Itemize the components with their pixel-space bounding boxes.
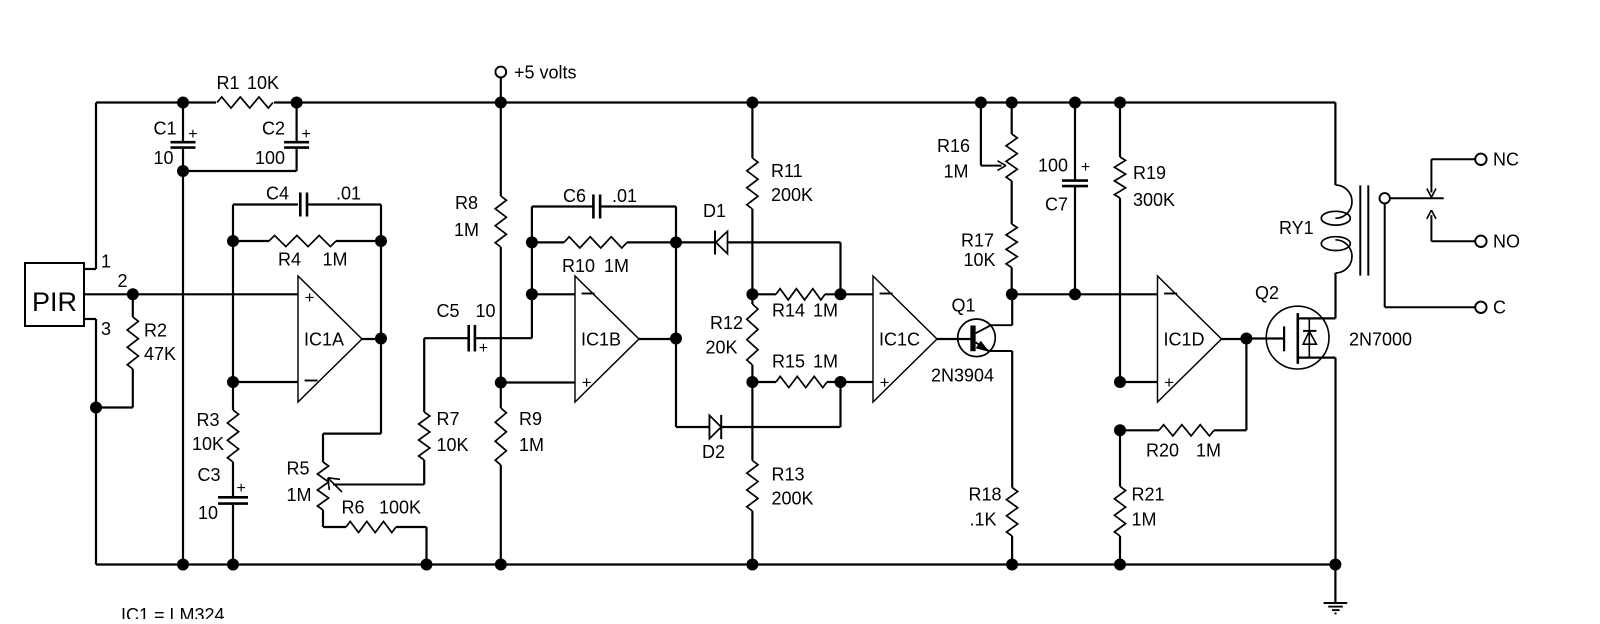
- svg-text:3: 3: [101, 319, 111, 339]
- svg-text:C2: C2: [262, 119, 285, 139]
- svg-text:10: 10: [476, 301, 496, 321]
- svg-text:IC1A: IC1A: [304, 330, 344, 350]
- svg-text:1M: 1M: [813, 301, 838, 321]
- resistor R10 1M: [532, 241, 564, 243]
- svg-text:1M: 1M: [604, 256, 629, 276]
- capacitor C7 100: [1069, 97, 1081, 109]
- NC contact: [1431, 158, 1475, 160]
- pin 1: [84, 268, 96, 270]
- svg-text:R5: R5: [287, 459, 310, 479]
- svg-text:R20: R20: [1146, 441, 1179, 461]
- wire: IC1B right vertical to D2: [675, 207, 677, 428]
- PIR sensor module: [25, 263, 84, 326]
- svg-text:R21: R21: [1132, 485, 1165, 505]
- relay arm: [1390, 197, 1444, 199]
- svg-text:R13: R13: [772, 465, 805, 485]
- svg-text:1M: 1M: [1132, 510, 1157, 530]
- C common contact: [1384, 204, 1386, 308]
- potentiometer R16 1M: [1006, 97, 1018, 109]
- pin 2: [84, 293, 298, 295]
- svg-text:C3: C3: [198, 465, 221, 485]
- svg-text:20K: 20K: [706, 338, 738, 358]
- svg-text:R6: R6: [342, 498, 365, 518]
- svg-text:R9: R9: [519, 409, 542, 429]
- svg-text:R4: R4: [278, 250, 301, 270]
- resistor R6 100K: [323, 526, 346, 528]
- resistor R20 1M feedback: [1245, 339, 1247, 430]
- resistor R9 1M: [500, 383, 502, 409]
- wire: IC1A - input: [227, 376, 239, 388]
- svg-text:+5 volts: +5 volts: [514, 63, 577, 83]
- svg-text:+: +: [302, 126, 311, 143]
- svg-text:+: +: [1081, 159, 1090, 176]
- svg-text:R1: R1: [217, 73, 240, 93]
- relay RY1 coil: [1334, 103, 1336, 186]
- resistor R7 10K: [423, 338, 425, 412]
- svg-text:R16: R16: [937, 136, 970, 156]
- svg-text:C1: C1: [154, 119, 177, 139]
- wire: Q1 collector row to IC1D - input: [1012, 293, 1158, 295]
- resistor R11 200K column: [746, 97, 758, 109]
- svg-text:+: +: [305, 288, 315, 307]
- svg-text:200K: 200K: [772, 489, 814, 509]
- MOSFET Q2 2N7000: [1246, 337, 1284, 339]
- wire: Q2 drain to relay coil: [1334, 275, 1336, 318]
- svg-text:10K: 10K: [964, 250, 996, 270]
- wire: feedback right vertical: [380, 205, 382, 434]
- wire: Q1 emitter to R18: [1011, 351, 1013, 488]
- svg-text:C4: C4: [266, 184, 289, 204]
- potentiometer R5 1M: [323, 433, 381, 435]
- resistor R8 1M column: [495, 97, 507, 109]
- svg-text:R11: R11: [771, 161, 803, 181]
- svg-text:.01: .01: [612, 186, 637, 206]
- svg-text:C: C: [1493, 298, 1506, 318]
- wire: IC1D output node: [1222, 338, 1247, 340]
- R16 wiper arrow: [975, 97, 987, 109]
- capacitor C1 10: [177, 97, 189, 109]
- svg-text:+: +: [1164, 373, 1174, 392]
- svg-text:R3: R3: [197, 410, 220, 430]
- capacitor C3 10: [218, 496, 248, 499]
- svg-text:R2: R2: [144, 321, 167, 341]
- relay core: [1359, 185, 1361, 275]
- svg-text:100: 100: [255, 148, 285, 168]
- svg-text:R8: R8: [455, 193, 478, 213]
- svg-text:R18: R18: [969, 485, 1002, 505]
- svg-text:10K: 10K: [247, 73, 279, 93]
- svg-text:2: 2: [118, 271, 128, 291]
- svg-text:300K: 300K: [1133, 190, 1175, 210]
- svg-text:Q1: Q1: [952, 296, 976, 316]
- resistor R15 1M: [835, 376, 847, 388]
- svg-text:2N3904: 2N3904: [931, 366, 994, 386]
- svg-text:.01: .01: [336, 184, 361, 204]
- wire: ground bottom rail: [96, 563, 1335, 565]
- svg-text:D2: D2: [702, 442, 725, 462]
- op-amp IC1C: [873, 276, 937, 402]
- resistor R12 20K: [746, 288, 758, 300]
- capacitor C4 .01: [233, 203, 300, 205]
- svg-text:D1: D1: [703, 201, 726, 221]
- svg-text:IC1C: IC1C: [879, 330, 920, 350]
- svg-text:10K: 10K: [437, 435, 469, 455]
- svg-text:+: +: [582, 373, 592, 392]
- svg-text:100K: 100K: [379, 498, 421, 518]
- op-amp IC1D: [1158, 276, 1222, 402]
- svg-text:R15: R15: [772, 352, 805, 372]
- diode D2: [676, 426, 709, 428]
- svg-text:PIR: PIR: [32, 287, 77, 317]
- svg-text:IC1 = LM324: IC1 = LM324: [121, 605, 225, 619]
- svg-text:1M: 1M: [944, 162, 969, 182]
- svg-text:IC1B: IC1B: [581, 330, 621, 350]
- transistor Q1 2N3904: [958, 319, 996, 357]
- resistor R17 10K: [1006, 224, 1017, 268]
- svg-text:10: 10: [198, 503, 218, 523]
- IC1B feedback box left vertical: [531, 207, 533, 339]
- svg-text:10: 10: [154, 148, 174, 168]
- wire: IC1B - input: [532, 293, 575, 295]
- svg-text:R19: R19: [1133, 163, 1166, 183]
- svg-text:R17: R17: [961, 231, 994, 251]
- op-amp IC1A: [298, 276, 362, 402]
- ground symbol: [1334, 565, 1336, 604]
- svg-text:10K: 10K: [192, 434, 224, 454]
- wire: IC1B output: [639, 338, 676, 340]
- wire: C1 ground drop: [182, 171, 184, 565]
- svg-text:100: 100: [1038, 156, 1068, 176]
- wire: Q2 source to ground rail: [1334, 358, 1336, 565]
- svg-text:47K: 47K: [144, 344, 176, 364]
- svg-text:+: +: [237, 480, 246, 497]
- svg-text:R7: R7: [437, 409, 460, 429]
- NO contact: [1431, 240, 1475, 242]
- svg-text:+: +: [880, 373, 890, 392]
- wire: IC1A output: [362, 338, 381, 340]
- capacitor C5 10: [424, 337, 469, 339]
- svg-text:2N7000: 2N7000: [1349, 330, 1412, 350]
- capacitor C6 .01: [532, 205, 594, 207]
- capacitor C2 100: [291, 97, 303, 109]
- wire: IC1D + input: [1120, 381, 1158, 383]
- svg-text:1M: 1M: [1196, 441, 1221, 461]
- svg-text:C6: C6: [563, 186, 586, 206]
- node: ground stub left: [90, 402, 102, 414]
- svg-text:+: +: [479, 340, 488, 357]
- Q2 body diode: [1308, 318, 1310, 357]
- svg-text:R10: R10: [562, 256, 595, 276]
- svg-text:1M: 1M: [454, 220, 479, 240]
- R5 wiper arrow from R7: [423, 460, 425, 485]
- wire: +5V top supply rail: [96, 101, 1335, 103]
- svg-text:+: +: [188, 126, 197, 143]
- svg-text:C7: C7: [1045, 195, 1068, 215]
- svg-text:RY1: RY1: [1279, 218, 1314, 238]
- svg-text:1M: 1M: [323, 250, 348, 270]
- svg-text:C5: C5: [437, 301, 460, 321]
- resistor R13 200K: [751, 382, 753, 461]
- resistor R4 1M: [227, 235, 239, 247]
- resistor R1 10K: [216, 94, 274, 111]
- svg-text:NC: NC: [1493, 150, 1519, 170]
- svg-text:200K: 200K: [771, 185, 813, 205]
- svg-text:1M: 1M: [519, 435, 544, 455]
- resistor R18 .1K: [1007, 488, 1018, 537]
- +5 volts terminal: [495, 67, 506, 78]
- resistor R21 1M: [1119, 430, 1121, 486]
- wire: IC1C output to Q1 base: [937, 338, 971, 340]
- svg-text:1: 1: [101, 252, 111, 272]
- wire: IC1B + input: [501, 381, 575, 383]
- svg-text:R12: R12: [710, 313, 743, 333]
- IC1A feedback box left vertical / R3 column: [232, 205, 234, 411]
- svg-text:R14: R14: [772, 301, 805, 321]
- svg-text:1M: 1M: [287, 485, 312, 505]
- diode D1: [676, 241, 715, 243]
- svg-text:1M: 1M: [813, 352, 838, 372]
- svg-text:Q2: Q2: [1255, 283, 1279, 303]
- relay common pivot: [1380, 193, 1390, 203]
- svg-text:NO: NO: [1493, 232, 1520, 252]
- svg-text:IC1D: IC1D: [1164, 330, 1205, 350]
- svg-text:.1K: .1K: [970, 510, 997, 530]
- resistor R2 47K: [132, 294, 134, 317]
- resistor R3 10K: [227, 410, 238, 462]
- resistor R19 300K column: [1114, 97, 1126, 109]
- resistor R14 1M: [835, 288, 847, 300]
- pin 3: [84, 318, 96, 320]
